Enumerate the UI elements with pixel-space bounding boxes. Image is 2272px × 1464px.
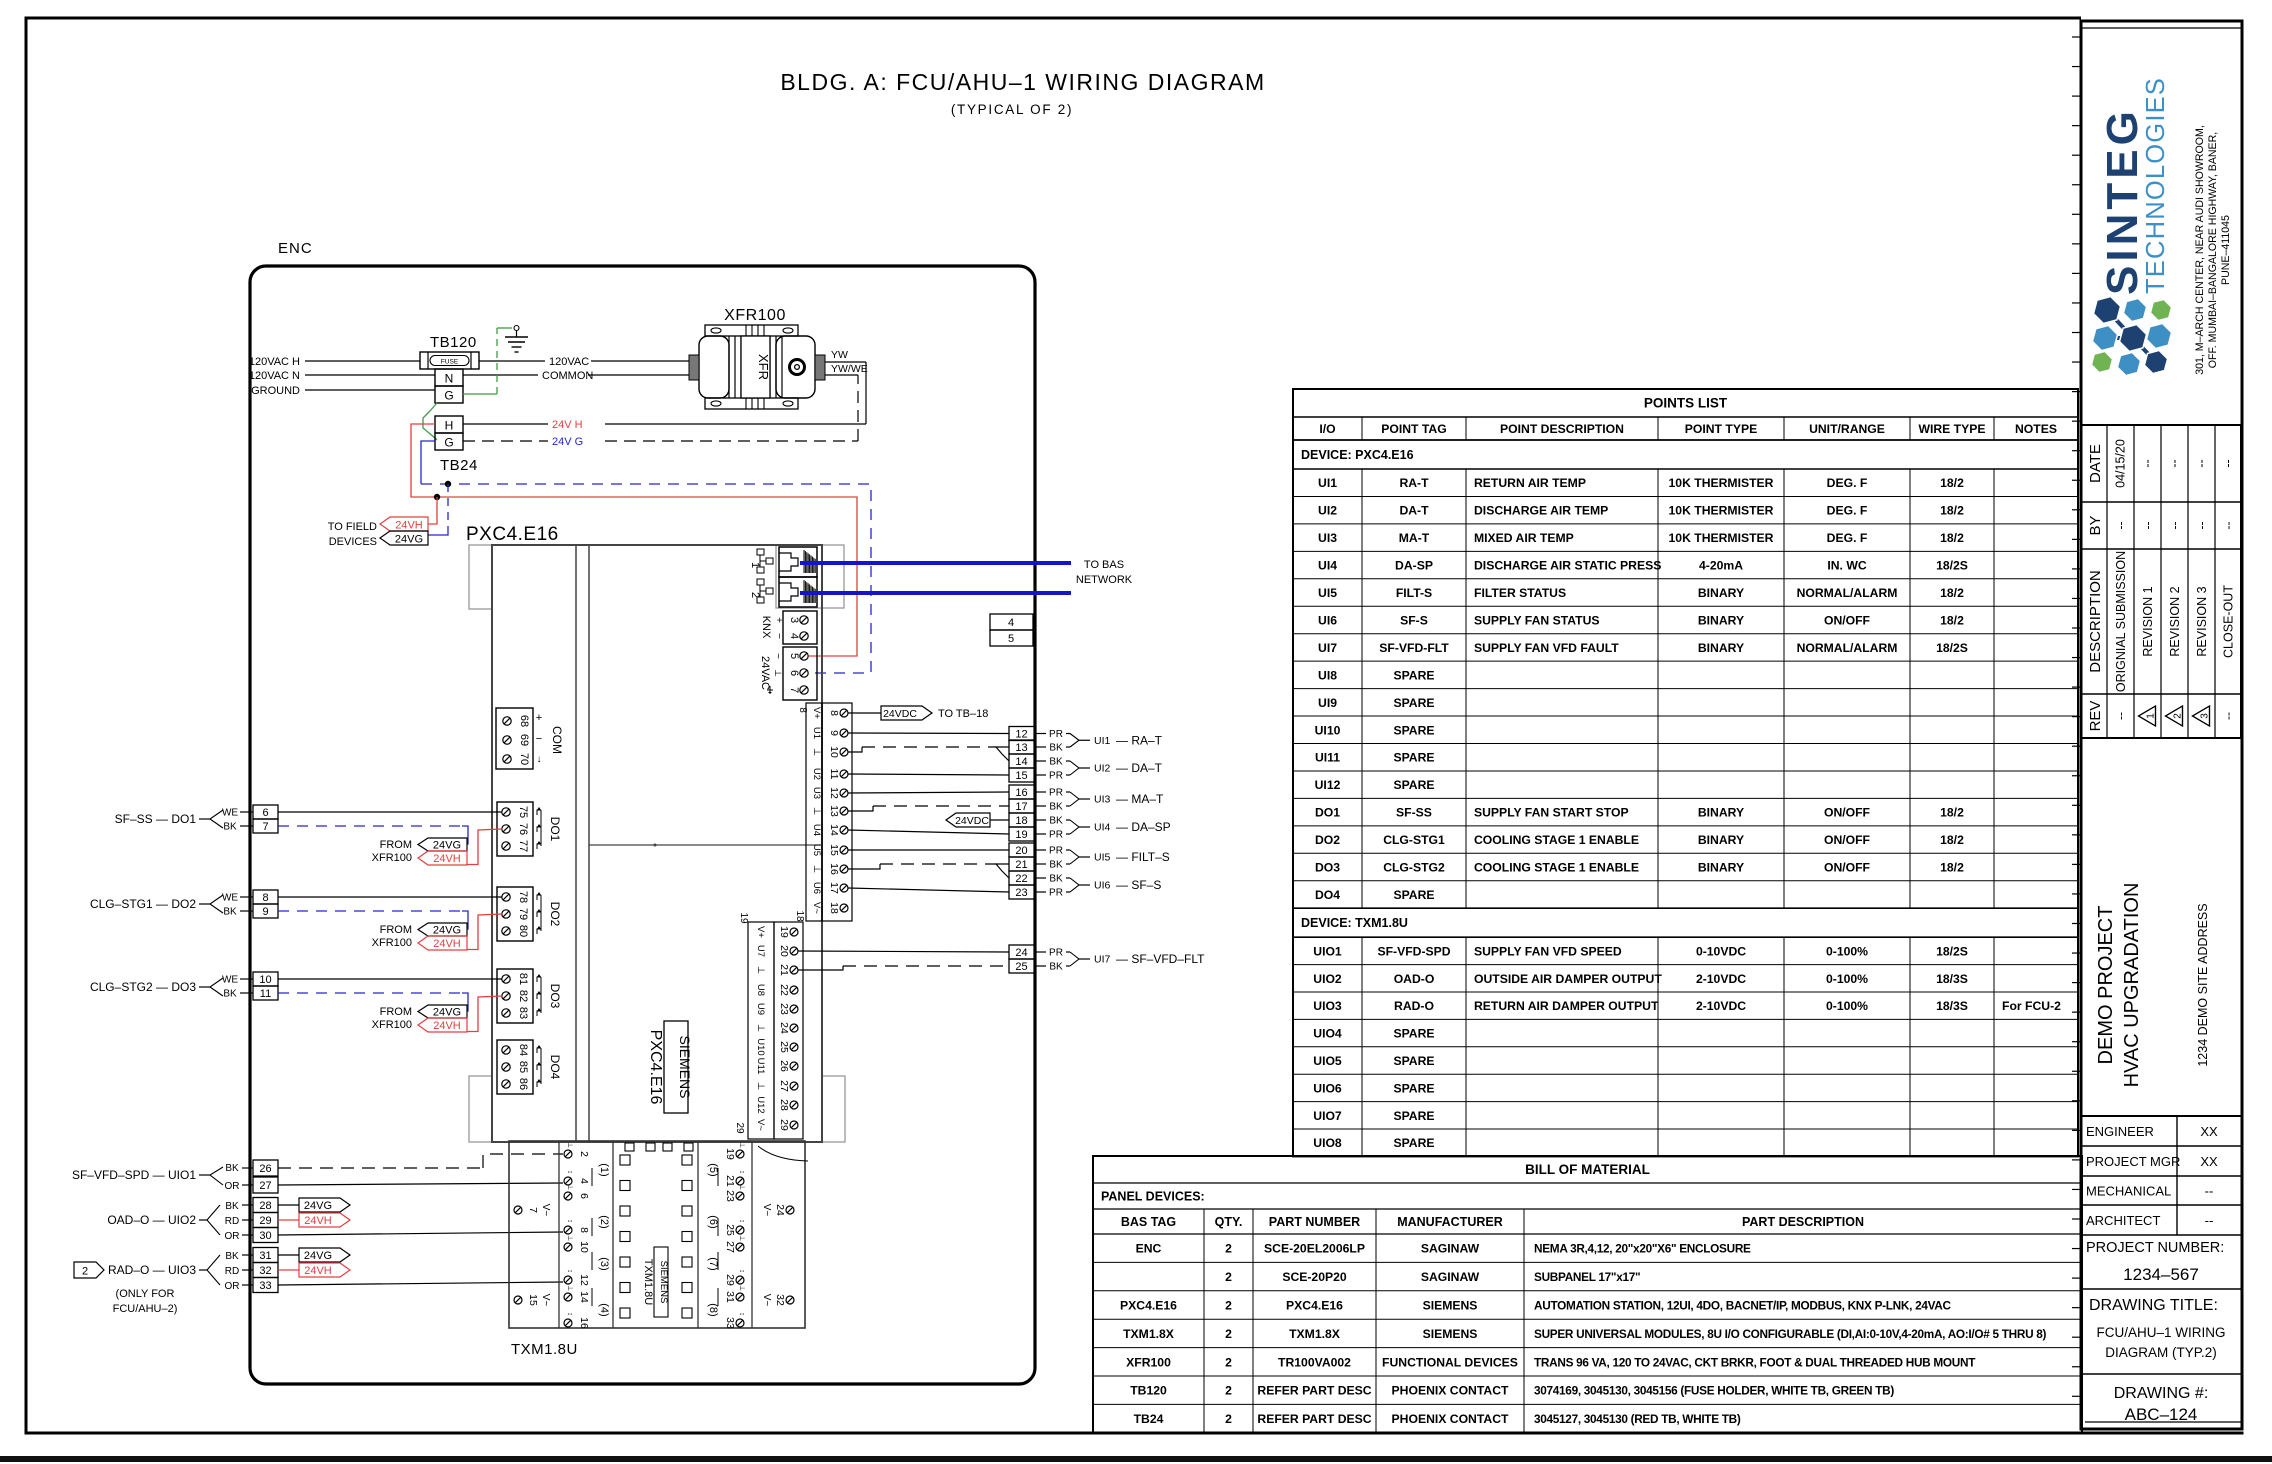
svg-text:86: 86 <box>517 1078 529 1090</box>
svg-text:2: 2 <box>1225 1270 1232 1284</box>
wire COMMON to transformer <box>463 374 538 376</box>
flag 24VH to field <box>380 517 428 531</box>
svg-text:⊥: ⊥ <box>811 748 822 756</box>
TXM right power terminals <box>786 1206 794 1214</box>
svg-text:U6: U6 <box>811 882 822 894</box>
svg-text:DEG. F: DEG. F <box>1827 531 1868 545</box>
svg-text:18: 18 <box>828 902 840 914</box>
svg-text:2: 2 <box>1225 1355 1232 1369</box>
svg-text:MECHANICAL: MECHANICAL <box>2086 1184 2171 1199</box>
secondary wire YW/WE <box>825 374 858 376</box>
svg-text:U10: U10 <box>755 1038 766 1055</box>
svg-text:29: 29 <box>259 1215 271 1227</box>
svg-text:23: 23 <box>778 1003 790 1015</box>
svg-text:U12: U12 <box>755 1096 766 1113</box>
svg-text:SPARE: SPARE <box>1393 723 1434 737</box>
svg-text:RD: RD <box>225 1266 239 1277</box>
svg-text:--: -- <box>2221 459 2235 467</box>
svg-text:4: 4 <box>578 1178 590 1184</box>
svg-text:TB24: TB24 <box>440 457 478 474</box>
svg-text:PXC4.E16: PXC4.E16 <box>466 524 559 545</box>
svg-text:RAD–O — UIO3: RAD–O — UIO3 <box>108 1263 196 1277</box>
svg-text:19: 19 <box>778 926 790 938</box>
svg-text:32: 32 <box>774 1294 786 1306</box>
svg-text:6: 6 <box>788 670 800 676</box>
svg-text:UIO3: UIO3 <box>1313 999 1342 1013</box>
svg-text:+: + <box>773 617 784 623</box>
svg-text:15: 15 <box>828 844 840 856</box>
svg-text:85: 85 <box>517 1061 529 1073</box>
svg-text:DEG. F: DEG. F <box>1827 504 1868 518</box>
svg-text:COMMON: COMMON <box>542 370 593 382</box>
svg-text:REFER PART DESC: REFER PART DESC <box>1257 1384 1371 1398</box>
svg-text:28: 28 <box>778 1099 790 1111</box>
svg-text:--: -- <box>2195 459 2209 467</box>
svg-text:REFER PART DESC: REFER PART DESC <box>1257 1412 1371 1426</box>
signature rows <box>2081 1115 2242 1117</box>
svg-text:U4: U4 <box>811 824 822 836</box>
svg-text:2: 2 <box>1225 1384 1232 1398</box>
svg-text:TB120: TB120 <box>1130 1384 1167 1398</box>
svg-text:18/2: 18/2 <box>1940 806 1964 820</box>
svg-text:24V G: 24V G <box>552 436 583 448</box>
svg-text:TXM1.8U: TXM1.8U <box>511 1341 578 1358</box>
svg-text:NEMA 3R,4,12, 20"x20"X6" ENCLO: NEMA 3R,4,12, 20"x20"X6" ENCLOSURE <box>1534 1242 1751 1256</box>
svg-text:2: 2 <box>578 1151 590 1157</box>
svg-text:0-100%: 0-100% <box>1826 972 1868 986</box>
bottom black band <box>0 1456 2272 1462</box>
svg-text:8: 8 <box>828 710 840 716</box>
svg-text:PR: PR <box>1049 771 1063 782</box>
svg-text:BINARY: BINARY <box>1698 641 1744 655</box>
svg-text:SPARE: SPARE <box>1393 1081 1434 1095</box>
svg-text:TO FIELD: TO FIELD <box>328 521 377 533</box>
svg-text:18/2: 18/2 <box>1940 833 1964 847</box>
svg-text:SF–SS — DO1: SF–SS — DO1 <box>115 812 197 826</box>
svg-text:31: 31 <box>259 1250 271 1262</box>
svg-text:31: 31 <box>724 1291 736 1303</box>
svg-text:17: 17 <box>1015 801 1027 813</box>
svg-text:↓: ↓ <box>537 754 542 765</box>
svg-text:RD: RD <box>225 1216 239 1227</box>
svg-text:BK: BK <box>1049 860 1063 871</box>
TXM input terminals col1 <box>564 1150 572 1158</box>
svg-text:77: 77 <box>517 840 529 852</box>
svg-text:82: 82 <box>517 990 529 1002</box>
DO1 wires <box>278 811 502 813</box>
svg-text:ON/OFF: ON/OFF <box>1824 833 1870 847</box>
svg-text:DISCHARGE AIR STATIC PRESS: DISCHARGE AIR STATIC PRESS <box>1474 559 1661 573</box>
svg-text:8: 8 <box>262 892 268 904</box>
input label UI2 DA–T <box>1035 760 1046 762</box>
svg-text:DO4: DO4 <box>1315 888 1340 902</box>
DO2 terminal block <box>497 887 533 941</box>
svg-text:24: 24 <box>778 1022 790 1034</box>
svg-text:18: 18 <box>794 910 805 922</box>
svg-text:+: + <box>536 712 542 724</box>
svg-text:For FCU-2: For FCU-2 <box>2002 999 2061 1013</box>
svg-text:PHOENIX CONTACT: PHOENIX CONTACT <box>1392 1384 1509 1398</box>
svg-text:COM: COM <box>550 726 564 754</box>
svg-text:XFR100: XFR100 <box>372 852 412 864</box>
svg-text:−: − <box>536 733 542 745</box>
svg-text:--: -- <box>2168 459 2182 467</box>
svg-text:SIEMENS: SIEMENS <box>677 1035 693 1098</box>
svg-text:NORMAL/ALARM: NORMAL/ALARM <box>1797 641 1898 655</box>
svg-text:24VH: 24VH <box>433 1020 461 1032</box>
svg-text:⊥: ⊥ <box>773 669 783 677</box>
svg-text:DESCRIPTION: DESCRIPTION <box>2087 570 2104 673</box>
svg-text:DATE: DATE <box>2087 444 2104 483</box>
svg-text:(2): (2) <box>598 1215 610 1228</box>
svg-text:24VH: 24VH <box>395 520 423 532</box>
svg-text:FILT-S: FILT-S <box>1396 586 1432 600</box>
svg-text:DRAWING #:: DRAWING #: <box>2114 1385 2209 1402</box>
svg-text:29: 29 <box>778 1119 790 1131</box>
svg-text:PROJECT NUMBER:: PROJECT NUMBER: <box>2086 1240 2224 1256</box>
green ground jumper wire <box>423 403 437 440</box>
svg-text:33: 33 <box>724 1317 736 1329</box>
svg-text:— SF–VFD–FLT: — SF–VFD–FLT <box>1116 952 1205 966</box>
svg-text:18/2: 18/2 <box>1940 586 1964 600</box>
DO2 wires <box>278 896 502 898</box>
transformer XFR100 body <box>705 325 798 336</box>
svg-text:BILL OF MATERIAL: BILL OF MATERIAL <box>1525 1162 1650 1177</box>
svg-text:↕: ↕ <box>738 1170 745 1174</box>
svg-text:12: 12 <box>828 787 840 799</box>
svg-text:UI5: UI5 <box>1318 586 1337 600</box>
svg-text:DEVICES: DEVICES <box>329 536 377 548</box>
svg-text:V~: V~ <box>540 1294 551 1307</box>
svg-text:DEG. F: DEG. F <box>1827 476 1868 490</box>
24VAC terminal block 5 6 7 <box>783 647 817 700</box>
svg-text:23: 23 <box>1015 887 1027 899</box>
svg-text:TXM1.8X: TXM1.8X <box>1289 1327 1341 1341</box>
svg-text:V~: V~ <box>540 1204 551 1217</box>
svg-text:120VAC N: 120VAC N <box>249 370 300 382</box>
svg-text:10K THERMISTER: 10K THERMISTER <box>1669 531 1774 545</box>
svg-text:10: 10 <box>828 746 840 758</box>
svg-text:↕: ↕ <box>738 1312 745 1316</box>
svg-text:FILTER STATUS: FILTER STATUS <box>1474 586 1566 600</box>
svg-text:UI12: UI12 <box>1315 778 1341 792</box>
svg-text:BINARY: BINARY <box>1698 806 1744 820</box>
svg-text:7: 7 <box>262 821 268 833</box>
svg-text:U1: U1 <box>811 727 822 739</box>
svg-text:WIRE TYPE: WIRE TYPE <box>1918 422 1985 436</box>
svg-text:24VG: 24VG <box>304 1200 332 1212</box>
svg-text:SF-VFD-FLT: SF-VFD-FLT <box>1379 641 1449 655</box>
svg-text:3074169, 3045130, 3045156 (FUS: 3074169, 3045130, 3045156 (FUSE HOLDER, … <box>1534 1384 1894 1398</box>
svg-text:--: -- <box>2221 712 2235 720</box>
svg-text:BK: BK <box>223 822 237 833</box>
svg-text:78: 78 <box>517 891 529 903</box>
svg-text:— FILT–S: — FILT–S <box>1116 850 1170 864</box>
binding tick marks <box>2072 36 2081 38</box>
svg-text:2: 2 <box>1225 1327 1232 1341</box>
svg-text:HVAC UPGRADATION: HVAC UPGRADATION <box>2121 883 2143 1088</box>
svg-text:OR: OR <box>225 1181 240 1192</box>
svg-text:⊥: ⊥ <box>738 1184 745 1190</box>
dot center <box>654 844 657 847</box>
svg-text:DO2: DO2 <box>1315 833 1340 847</box>
svg-text:⊥: ⊥ <box>566 1184 573 1190</box>
svg-text:PART NUMBER: PART NUMBER <box>1269 1215 1360 1229</box>
svg-text:26: 26 <box>259 1163 271 1175</box>
svg-text:3045127, 3045130 (RED TB, WHIT: 3045127, 3045130 (RED TB, WHITE TB) <box>1534 1412 1741 1426</box>
svg-text:CLG-STG2: CLG-STG2 <box>1383 861 1445 875</box>
svg-text:30: 30 <box>259 1230 271 1242</box>
svg-text:PR: PR <box>1049 888 1063 899</box>
svg-text:U11: U11 <box>755 1058 766 1075</box>
svg-text:SPARE: SPARE <box>1393 668 1434 682</box>
svg-text:DO1: DO1 <box>548 817 562 842</box>
svg-text:↕: ↕ <box>566 1312 573 1316</box>
svg-text:24VG: 24VG <box>433 1007 461 1019</box>
svg-text:UI3: UI3 <box>1318 531 1337 545</box>
svg-text:U2: U2 <box>811 768 822 780</box>
svg-text:6: 6 <box>578 1193 590 1199</box>
project number block <box>2081 1288 2242 1290</box>
svg-text:26: 26 <box>778 1060 790 1072</box>
svg-text:⊥: ⊥ <box>755 1024 766 1032</box>
svg-text:79: 79 <box>517 908 529 920</box>
svg-text:OR: OR <box>225 1281 240 1292</box>
svg-text:↕: ↕ <box>566 1269 573 1273</box>
svg-text:XFR100: XFR100 <box>372 1019 412 1031</box>
earth ground symbol <box>463 393 497 395</box>
svg-text:KNX: KNX <box>760 616 772 639</box>
svg-text:16: 16 <box>828 863 840 875</box>
POINTS LIST table <box>1293 389 2078 1156</box>
svg-text:XFR100: XFR100 <box>372 937 412 949</box>
RJ45 network jacks <box>779 547 817 577</box>
svg-text:UI3: UI3 <box>1094 794 1111 806</box>
svg-text:16: 16 <box>1015 787 1027 799</box>
svg-text:24VG: 24VG <box>433 840 461 852</box>
svg-text:(1): (1) <box>598 1163 610 1176</box>
svg-text:24: 24 <box>774 1204 786 1216</box>
svg-text:BLDG. A: FCU/AHU–1 WIRING: BLDG. A: FCU/AHU–1 WIRING DIAGRAM <box>780 69 1265 95</box>
svg-text:SAGINAW: SAGINAW <box>1421 1242 1480 1256</box>
svg-text:SF-VFD-SPD: SF-VFD-SPD <box>1377 944 1450 958</box>
svg-text:DO3: DO3 <box>548 984 562 1009</box>
svg-text:COOLING STAGE 1 ENABLE: COOLING STAGE 1 ENABLE <box>1474 861 1639 875</box>
svg-text:ABC–124: ABC–124 <box>2125 1405 2198 1424</box>
svg-text:SCE-20EL2006LP: SCE-20EL2006LP <box>1264 1242 1365 1256</box>
svg-text:14: 14 <box>1015 756 1027 768</box>
svg-text:ON/OFF: ON/OFF <box>1824 861 1870 875</box>
svg-text:19: 19 <box>738 912 749 924</box>
svg-text:UI2: UI2 <box>1318 504 1337 518</box>
svg-text:27: 27 <box>724 1241 736 1253</box>
svg-text:UI10: UI10 <box>1315 723 1341 737</box>
svg-text:24VG: 24VG <box>433 925 461 937</box>
svg-text:PR: PR <box>1049 729 1063 740</box>
svg-text:18/2S: 18/2S <box>1936 641 1968 655</box>
svg-text:PUNE–411045: PUNE–411045 <box>2220 215 2232 285</box>
svg-text:BK: BK <box>223 907 237 918</box>
svg-text:TR100VA002: TR100VA002 <box>1278 1355 1351 1369</box>
svg-text:⊥: ⊥ <box>755 1082 766 1090</box>
svg-text:18/2S: 18/2S <box>1936 944 1968 958</box>
svg-text:76: 76 <box>517 823 529 835</box>
svg-text:PXC4.E16: PXC4.E16 <box>647 1030 664 1105</box>
wire 120VAC to transformer <box>479 360 545 362</box>
svg-text:I/O: I/O <box>1319 422 1335 436</box>
svg-text:20: 20 <box>1015 845 1027 857</box>
svg-text:2: 2 <box>1225 1299 1232 1313</box>
svg-text:1234 DEMO SITE ADDRESS: 1234 DEMO SITE ADDRESS <box>2196 903 2210 1066</box>
svg-text:CLG-STG1: CLG-STG1 <box>1383 833 1445 847</box>
svg-text:27: 27 <box>778 1080 790 1092</box>
branch to field flags <box>428 497 437 524</box>
svg-text:PXC4.E16: PXC4.E16 <box>1120 1299 1177 1313</box>
svg-text:24: 24 <box>1015 947 1027 959</box>
svg-text:17: 17 <box>828 882 840 894</box>
svg-text:SAGINAW: SAGINAW <box>1421 1270 1480 1284</box>
svg-text:MA-T: MA-T <box>1399 531 1430 545</box>
svg-text:BK: BK <box>1049 874 1063 885</box>
svg-text:(ONLY FOR: (ONLY FOR <box>116 1288 175 1300</box>
svg-text:POINTS LIST: POINTS LIST <box>1644 396 1728 411</box>
svg-text:DO4: DO4 <box>548 1055 562 1080</box>
flag 24VH from XFR100 <box>418 936 467 950</box>
svg-text:BK: BK <box>223 989 237 1000</box>
page border frame <box>25 17 28 1435</box>
input label UI1 RA–T <box>1035 733 1046 735</box>
wire 24V H <box>463 423 548 425</box>
svg-text:UI1: UI1 <box>1318 476 1337 490</box>
svg-text:21: 21 <box>724 1175 736 1187</box>
svg-text:11: 11 <box>828 769 840 780</box>
transformer XFR winding box <box>741 336 770 398</box>
svg-text:25: 25 <box>1015 961 1027 973</box>
svg-text:29: 29 <box>724 1274 736 1286</box>
svg-text:SPARE: SPARE <box>1393 888 1434 902</box>
svg-text:DEMO PROJECT: DEMO PROJECT <box>2095 906 2117 1065</box>
svg-text:OFF. MUMBAI–BANGALORE HIGHWA: OFF. MUMBAI–BANGALORE HIGHWAY, BANER, <box>2207 132 2219 368</box>
svg-text:UI11: UI11 <box>1315 751 1340 765</box>
svg-text:--: -- <box>2141 459 2155 467</box>
svg-text:UI8: UI8 <box>1318 668 1337 682</box>
svg-text:SUPPLY FAN START STOP: SUPPLY FAN START STOP <box>1474 806 1629 820</box>
svg-text:DO2: DO2 <box>548 902 562 927</box>
revision table <box>2081 425 2241 738</box>
svg-text:80: 80 <box>517 925 529 937</box>
svg-text:(8): (8) <box>707 1303 719 1316</box>
terminal boxes 12-25 <box>1009 727 1035 741</box>
svg-text:TB120: TB120 <box>430 334 477 351</box>
svg-text:--: -- <box>2195 522 2209 530</box>
drawing title block <box>2081 1373 2242 1375</box>
svg-text:18/3S: 18/3S <box>1936 999 1968 1013</box>
svg-text:⊥: ⊥ <box>738 1142 745 1148</box>
svg-text:10K THERMISTER: 10K THERMISTER <box>1669 476 1774 490</box>
svg-text:18/2: 18/2 <box>1940 476 1964 490</box>
svg-text:⊥: ⊥ <box>755 966 766 974</box>
svg-text:⊥: ⊥ <box>566 1285 573 1291</box>
svg-text:CLG–STG1 — DO2: CLG–STG1 — DO2 <box>90 897 196 911</box>
svg-text:70: 70 <box>518 753 530 765</box>
svg-text:UI7: UI7 <box>1318 641 1337 655</box>
COM terminal block 68 69 70 <box>496 708 533 769</box>
svg-text:V~: V~ <box>761 1294 772 1307</box>
BAS network wires <box>800 561 1071 565</box>
svg-text:UI2: UI2 <box>1094 763 1111 775</box>
svg-text:UI9: UI9 <box>1318 696 1337 710</box>
svg-text:⊥: ⊥ <box>738 1235 745 1241</box>
svg-text:22: 22 <box>778 984 790 996</box>
svg-text:68: 68 <box>518 715 530 727</box>
flag 24VG from XFR100 <box>418 1005 467 1018</box>
svg-text:U7: U7 <box>755 945 766 957</box>
flag 24VH right <box>278 1219 299 1221</box>
wire 24V G dashed <box>463 440 548 442</box>
svg-text:18/2S: 18/2S <box>1936 559 1968 573</box>
svg-text:RETURN AIR TEMP: RETURN AIR TEMP <box>1474 476 1586 490</box>
svg-text:28: 28 <box>259 1200 271 1212</box>
svg-text:33: 33 <box>259 1280 271 1292</box>
svg-text:20: 20 <box>778 945 790 957</box>
svg-text:UIO4: UIO4 <box>1313 1027 1342 1041</box>
svg-text:BK: BK <box>1049 962 1063 973</box>
svg-text:--: -- <box>2168 522 2182 530</box>
svg-text:24VG: 24VG <box>395 534 423 546</box>
svg-text:14: 14 <box>828 824 840 836</box>
svg-text:PANEL DEVICES:: PANEL DEVICES: <box>1101 1190 1205 1204</box>
svg-text:XFR100: XFR100 <box>1126 1355 1171 1369</box>
red 24VH feeder wire <box>411 424 857 656</box>
svg-text:PR: PR <box>1049 948 1063 959</box>
transformer knockout <box>790 360 805 375</box>
PXC main body <box>492 545 822 1142</box>
svg-text:BINARY: BINARY <box>1698 833 1744 847</box>
svg-text:24VG: 24VG <box>304 1250 332 1262</box>
svg-text:G: G <box>444 389 453 403</box>
svg-text:PXC4.E16: PXC4.E16 <box>1286 1299 1343 1313</box>
svg-text:BK: BK <box>1049 743 1063 754</box>
svg-text:84: 84 <box>517 1044 529 1056</box>
svg-text:WE: WE <box>222 893 238 904</box>
svg-text:COOLING STAGE 1 ENABLE: COOLING STAGE 1 ENABLE <box>1474 833 1639 847</box>
svg-text:7: 7 <box>788 687 800 693</box>
svg-text:PR: PR <box>1049 788 1063 799</box>
svg-text:UI6: UI6 <box>1094 880 1111 892</box>
svg-text:REVISION 1: REVISION 1 <box>2141 586 2155 656</box>
svg-text:18/2: 18/2 <box>1940 613 1964 627</box>
svg-text:0-100%: 0-100% <box>1826 944 1868 958</box>
module TXM1.8U body <box>509 1141 805 1328</box>
svg-text:XFR: XFR <box>756 354 771 380</box>
flag 24VG from XFR100 <box>418 838 467 851</box>
svg-text:TB24: TB24 <box>1134 1412 1164 1426</box>
svg-text:0-10VDC: 0-10VDC <box>1696 944 1746 958</box>
svg-text:--: -- <box>2205 1184 2214 1199</box>
svg-text:U8: U8 <box>755 984 766 996</box>
svg-text:↕: ↕ <box>566 1219 573 1223</box>
svg-text:SPARE: SPARE <box>1393 1054 1434 1068</box>
svg-text:23: 23 <box>724 1190 736 1202</box>
svg-text:N: N <box>445 372 454 386</box>
svg-text:ON/OFF: ON/OFF <box>1824 613 1870 627</box>
svg-text:V~: V~ <box>761 1204 772 1217</box>
svg-text:DO3: DO3 <box>1315 861 1340 875</box>
svg-text:24V H: 24V H <box>552 419 583 431</box>
svg-text:SUBPANEL 17"x17": SUBPANEL 17"x17" <box>1534 1270 1640 1284</box>
svg-text:⊥: ⊥ <box>811 865 822 873</box>
svg-text:— RA–T: — RA–T <box>1116 733 1163 747</box>
